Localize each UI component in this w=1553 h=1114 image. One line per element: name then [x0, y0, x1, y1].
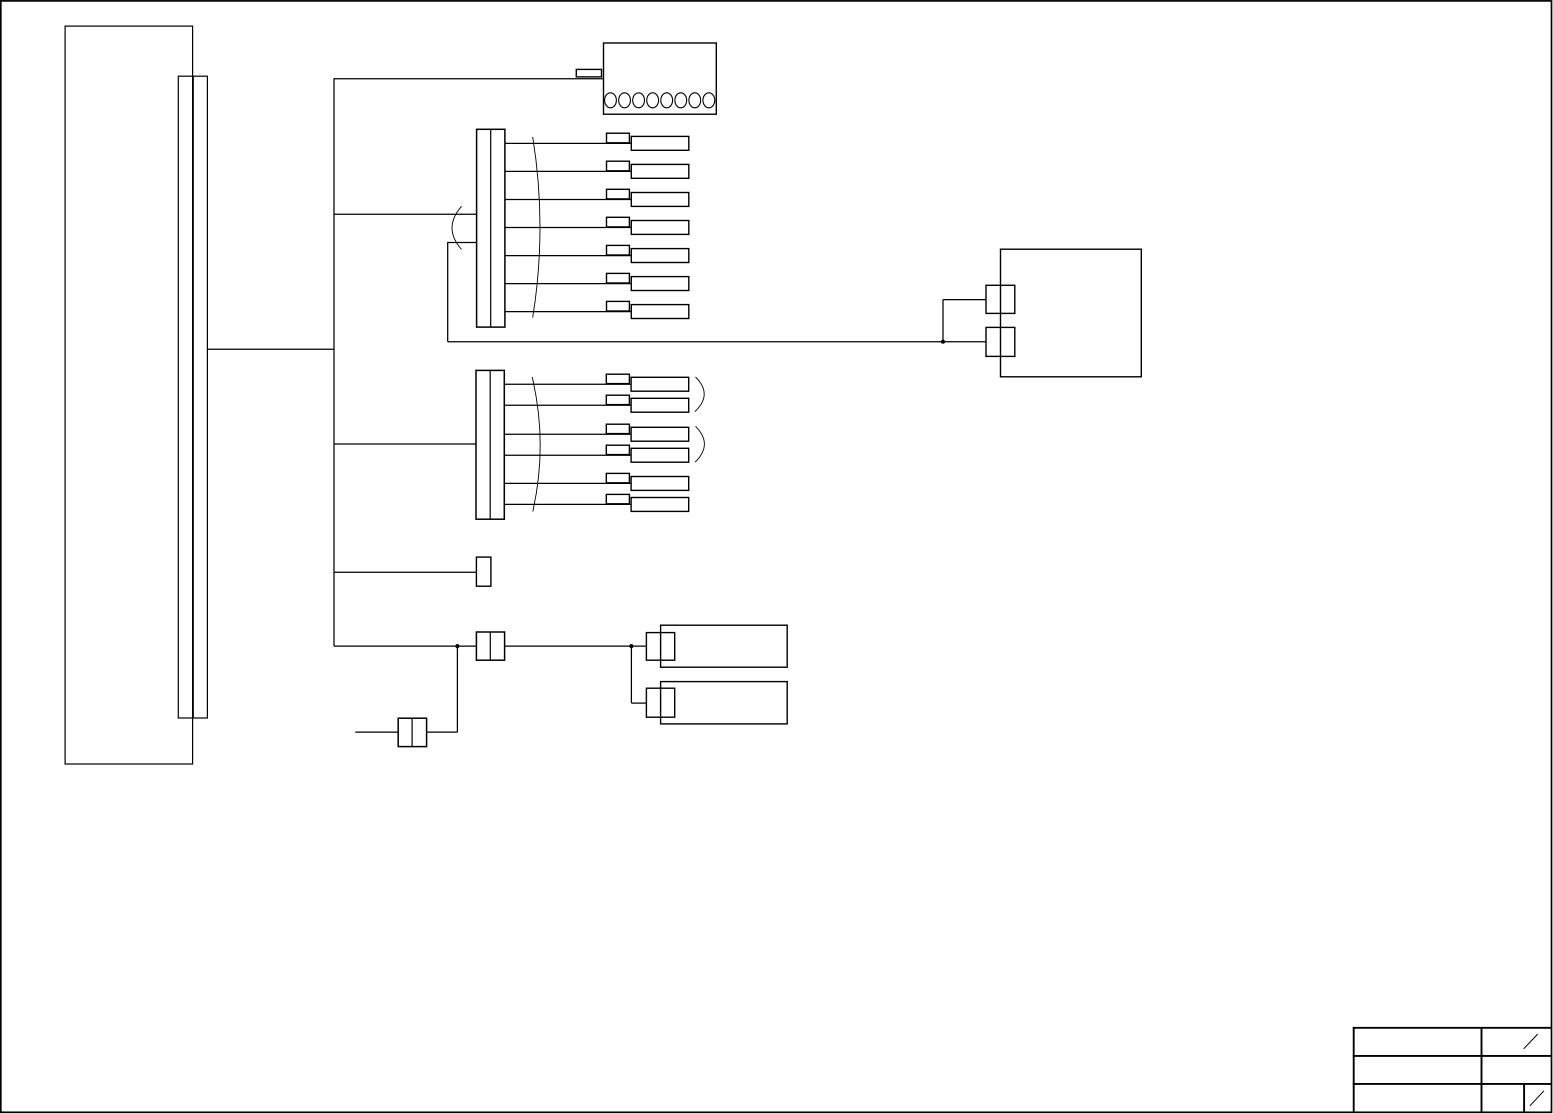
wire [505, 199, 631, 201]
pair bracket arc [695, 426, 704, 462]
terminal lug [607, 189, 630, 199]
wire [427, 646, 458, 732]
device E9 [631, 398, 689, 412]
cable bundle arc [533, 137, 540, 318]
title block [1353, 1027, 1552, 1112]
device E3 [631, 193, 689, 207]
wire [504, 503, 631, 505]
wire [505, 311, 631, 313]
wire [505, 255, 631, 257]
terminal lug [606, 473, 629, 482]
wire [505, 142, 631, 144]
device E12 [631, 477, 689, 491]
wire [334, 78, 604, 80]
wire [504, 482, 631, 484]
wire [334, 213, 477, 215]
wire [504, 383, 631, 385]
junction box A2 [604, 43, 717, 114]
pair bracket arc [695, 377, 704, 412]
cable entry holes [605, 93, 715, 108]
connector X5 [476, 632, 504, 660]
terminal lug [606, 494, 629, 503]
terminal lug [606, 424, 629, 433]
title block slash [1530, 1091, 1544, 1106]
device E15 [661, 682, 788, 724]
plug XP1 [646, 633, 674, 661]
wire [207, 348, 334, 350]
connector X3 [476, 370, 504, 519]
device E6 [631, 277, 689, 291]
wire [943, 300, 986, 342]
twisted-pair arc [452, 206, 462, 249]
terminal lug [606, 445, 629, 454]
device E7 [631, 305, 689, 319]
cable bundle arc [532, 377, 540, 512]
terminal lug [606, 395, 629, 404]
terminal lug [607, 217, 630, 227]
wire [448, 242, 943, 342]
plug XP4 [986, 327, 1015, 356]
device E1 [631, 136, 689, 150]
wire [504, 404, 631, 406]
device E5 [631, 249, 689, 263]
wire [334, 443, 476, 445]
drive unit M1 [1001, 249, 1142, 377]
junction [629, 644, 633, 648]
plug XP2 [646, 688, 674, 717]
junction [941, 340, 945, 344]
terminal lug [607, 133, 630, 143]
wire [504, 454, 631, 456]
cable gland tab [576, 69, 601, 77]
terminal lug [607, 161, 630, 171]
wire [504, 433, 631, 435]
title block slash [1524, 1034, 1538, 1049]
wire [505, 170, 631, 172]
device E2 [631, 164, 689, 178]
wire [631, 646, 646, 703]
wire [334, 645, 476, 647]
terminal strip X1 [178, 76, 207, 718]
connector X4 [476, 557, 491, 586]
control panel A1 [65, 26, 193, 764]
wire bus riser [333, 78, 335, 646]
terminal lug [606, 374, 629, 383]
device E8 [631, 377, 689, 391]
connector X6 [398, 718, 426, 746]
wire [505, 283, 631, 285]
device E4 [631, 221, 689, 235]
wire [505, 645, 647, 647]
wire [505, 227, 631, 229]
terminal lug [607, 273, 630, 283]
terminal lug [607, 245, 630, 255]
device E10 [631, 427, 689, 441]
plug XP3 [986, 285, 1015, 313]
wire [334, 571, 476, 573]
junction [455, 644, 459, 648]
connector X2 [477, 129, 505, 327]
wire [355, 731, 398, 733]
terminal lug [607, 301, 630, 311]
device E11 [631, 448, 689, 462]
device E13 [631, 498, 689, 512]
device E14 [661, 625, 788, 667]
